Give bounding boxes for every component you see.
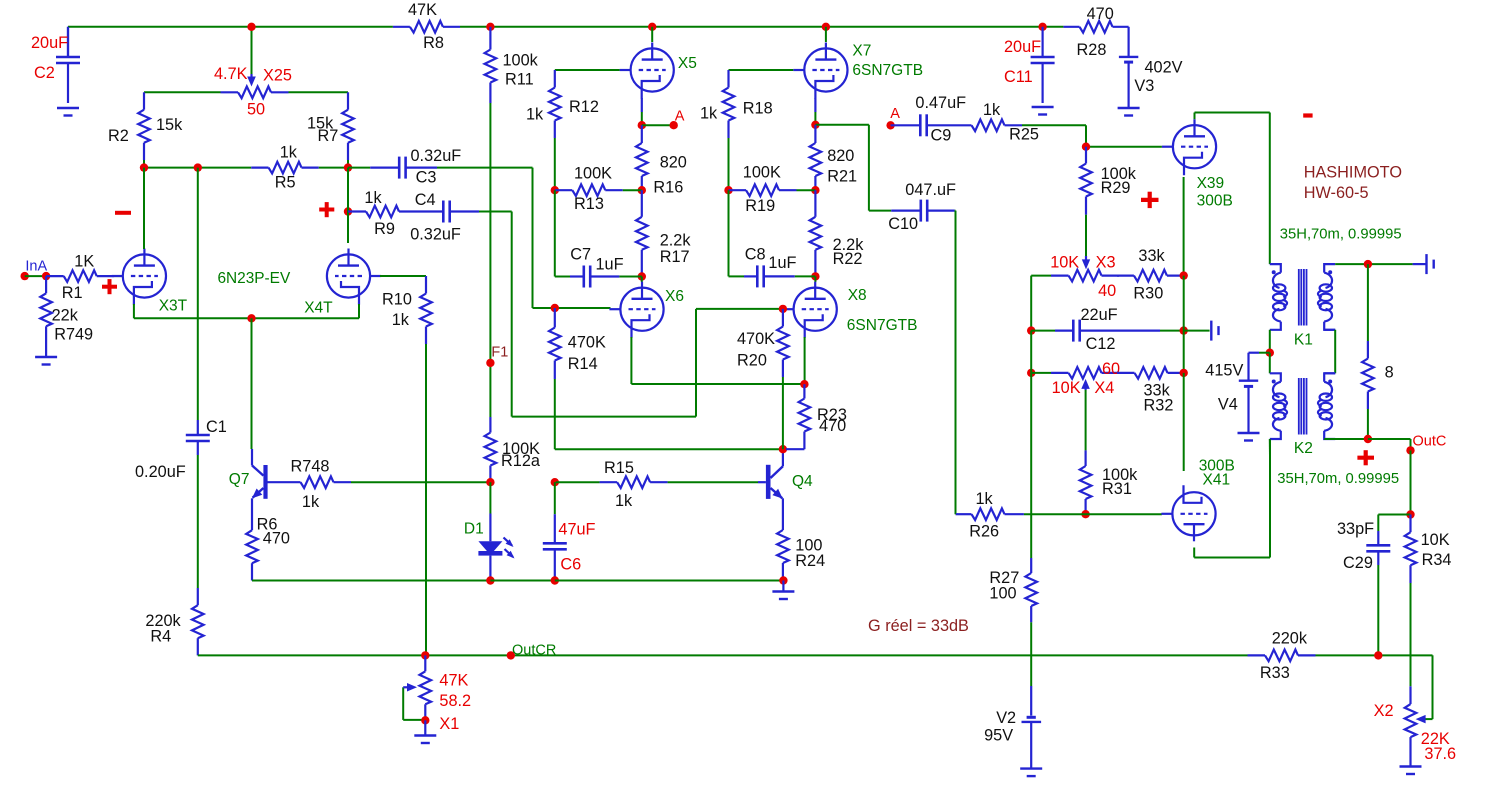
svg-text:R28: R28 — [1077, 41, 1107, 59]
svg-text:OutC: OutC — [1413, 433, 1447, 449]
svg-text:HW-60-5: HW-60-5 — [1304, 184, 1369, 202]
junction dot X5 anode — [648, 23, 656, 31]
junction dot R8-R11 — [486, 23, 494, 31]
svg-text:X3: X3 — [1096, 253, 1116, 271]
wire C29 branch — [1378, 515, 1410, 532]
wire R18 to R19 dot — [728, 138, 730, 190]
wire to OutC corner — [1368, 439, 1411, 450]
svg-text:100k: 100k — [503, 52, 539, 70]
wire top B+ rail right segment — [460, 26, 1063, 28]
resistor R12a — [485, 417, 541, 482]
transformer K1 core — [1294, 269, 1313, 348]
wire C8 branch — [729, 190, 745, 276]
capacitor C12 — [1031, 306, 1160, 353]
svg-text:R32: R32 — [1144, 397, 1174, 415]
wire R10 column down — [425, 344, 427, 655]
resistor R17 — [636, 190, 691, 276]
transformer K2 secondary — [1318, 373, 1335, 439]
svg-text:R12: R12 — [569, 98, 599, 116]
svg-text:R25: R25 — [1009, 125, 1039, 143]
svg-text:R5: R5 — [275, 174, 296, 192]
svg-text:100: 100 — [989, 584, 1016, 602]
capacitor C8 — [744, 245, 797, 287]
resistor R34 — [1405, 515, 1452, 584]
junction dot 8ohm bottom — [1364, 435, 1372, 443]
svg-text:V2: V2 — [996, 709, 1016, 727]
svg-text:100K: 100K — [743, 164, 781, 182]
svg-text:100K: 100K — [574, 165, 612, 183]
ground right of K1 secondary — [1413, 254, 1434, 274]
svg-text:R17: R17 — [660, 248, 690, 266]
battery V3 — [1119, 27, 1183, 108]
ground below X1 — [414, 736, 436, 744]
resistor R26 — [956, 490, 1024, 541]
resistor R31 — [1080, 450, 1138, 514]
wire X7 cathode to C10 col — [815, 125, 869, 211]
svg-text:220k: 220k — [1272, 630, 1308, 648]
wire InA — [25, 275, 46, 277]
resistor R19 — [729, 164, 816, 216]
junction dot InA-R1 — [42, 272, 50, 280]
svg-text:V3: V3 — [1134, 77, 1154, 95]
svg-text:58.2: 58.2 — [439, 692, 471, 710]
wire C8 to X8 anode dot — [795, 275, 816, 277]
triode X3T — [112, 249, 291, 315]
capacitor C6 — [543, 482, 596, 580]
wire X4dot down to R27 — [1030, 373, 1032, 558]
svg-text:X4T: X4T — [304, 299, 333, 316]
resistor R4 — [145, 588, 203, 655]
svg-text:R749: R749 — [54, 326, 93, 344]
wire X2 to ground — [1409, 755, 1411, 766]
wire V4dot to K2 — [1269, 353, 1271, 374]
capacitor C3 — [370, 147, 461, 186]
junction dot X1 top — [421, 651, 429, 659]
wire bottom rail D1-C6 — [490, 580, 554, 582]
svg-text:R748: R748 — [291, 458, 330, 476]
resistor R28 — [1063, 5, 1128, 59]
svg-text:K2: K2 — [1294, 440, 1313, 457]
wire C1 to R4 — [197, 455, 199, 588]
svg-text:8: 8 — [1385, 364, 1394, 382]
wire pot X25 right to R7 — [289, 91, 349, 93]
svg-text:1uF: 1uF — [768, 254, 796, 272]
svg-text:820: 820 — [827, 147, 854, 165]
svg-text:R15: R15 — [604, 459, 634, 477]
potentiometer X4 body — [1031, 360, 1120, 397]
svg-text:R31: R31 — [1102, 480, 1132, 498]
wire X7 anode — [825, 27, 827, 42]
junction dot V4 node — [1266, 349, 1274, 357]
svg-text:C2: C2 — [34, 64, 55, 82]
wire X8 anode — [814, 276, 816, 282]
junction dot R30 right — [1180, 271, 1188, 279]
wire C7 branch — [555, 190, 570, 276]
junction dot C12 left — [1027, 326, 1035, 334]
svg-text:1k: 1k — [615, 492, 633, 510]
transistor Q7 — [229, 449, 268, 513]
triode X6 — [609, 282, 684, 338]
potentiometer X3 body — [1050, 253, 1119, 300]
wire C12 right — [1160, 330, 1184, 332]
wire K2 prim bottom — [1269, 439, 1271, 455]
junction dot R29 top — [1082, 143, 1090, 151]
resistor R11 — [485, 27, 539, 103]
wire C10 down to R26 — [954, 211, 957, 515]
svg-text:G réel = 33dB: G réel = 33dB — [868, 617, 969, 635]
resistor 8ohm — [1362, 264, 1394, 439]
resistor R22 — [810, 190, 865, 276]
ground below C2 — [57, 108, 79, 116]
svg-text:X7: X7 — [852, 42, 871, 59]
potentiometer X3 wiper arrow — [1082, 256, 1090, 269]
svg-text:R4: R4 — [150, 628, 171, 646]
transformer K1 primary — [1270, 264, 1287, 330]
svg-text:1k: 1k — [364, 189, 382, 207]
svg-text:470K: 470K — [568, 334, 606, 352]
resistor R748 — [266, 458, 351, 511]
junction dot R13 left — [551, 186, 559, 194]
svg-text:X6: X6 — [665, 288, 684, 305]
junction dot X7 cathode — [811, 121, 819, 129]
junction dot C6 top — [551, 478, 559, 486]
ground right of C12 — [1184, 321, 1219, 341]
capacitor C1 — [135, 418, 227, 481]
svg-text:C1: C1 — [206, 418, 227, 436]
wire C7 to X6 anode dot — [619, 276, 641, 278]
wire R20 bottom — [782, 377, 784, 449]
triode X41 — [1161, 457, 1235, 541]
resistor R7 — [307, 92, 354, 167]
junction dot R12a bottom — [486, 478, 494, 486]
wire X39 cathode down — [1183, 177, 1185, 276]
svg-text:33k: 33k — [1138, 247, 1165, 265]
wire bottom rail Q7 — [252, 580, 490, 582]
svg-text:R33: R33 — [1260, 664, 1290, 682]
wire R11 column down — [489, 103, 491, 417]
svg-text:470: 470 — [819, 417, 846, 435]
ground below X2 — [1400, 767, 1422, 775]
junction dot C12 right — [1180, 326, 1188, 334]
wire R34 to X2 — [1410, 583, 1412, 686]
svg-text:R9: R9 — [374, 220, 395, 238]
resistor R27 — [989, 558, 1037, 622]
wire X39 cathode col mid — [1183, 276, 1185, 373]
svg-text:R18: R18 — [743, 99, 773, 117]
node OutCR dot — [507, 643, 557, 660]
svg-text:22k: 22k — [52, 307, 79, 325]
svg-text:R11: R11 — [505, 70, 534, 88]
resistor R1 — [46, 253, 114, 303]
LED D1 — [464, 482, 515, 577]
junction dot C6 bottom — [551, 576, 559, 584]
wire C12dot to X4dot — [1030, 331, 1032, 373]
wire R7dot to C3 — [348, 167, 370, 169]
svg-text:300B: 300B — [1197, 193, 1233, 210]
wire X6 cathode path — [631, 337, 804, 384]
wire C29 down — [1377, 565, 1379, 655]
wire grid rail y168 left — [144, 167, 251, 169]
svg-text:C12: C12 — [1086, 335, 1116, 353]
svg-text:0.32uF: 0.32uF — [410, 225, 461, 243]
svg-text:C11: C11 — [1004, 68, 1033, 86]
svg-text:K1: K1 — [1294, 331, 1313, 348]
svg-text:33pF: 33pF — [1337, 520, 1374, 538]
capacitor C7 — [570, 245, 624, 287]
svg-text:2.2k: 2.2k — [660, 232, 692, 250]
potentiometer X4 wiper arrow — [1081, 379, 1090, 390]
potentiometer X1 body — [420, 655, 472, 732]
junction dot R21 bottom — [811, 186, 819, 194]
svg-text:X1: X1 — [439, 715, 459, 733]
resistor R9 — [348, 189, 417, 238]
wire K1 sec top to ground — [1335, 263, 1412, 265]
wire R15 to Q4 base — [668, 481, 758, 483]
svg-text:C3: C3 — [416, 169, 437, 187]
capacitor C4 — [410, 191, 479, 243]
wire X25 wiper drop — [251, 27, 253, 74]
capacitor C2 — [31, 27, 80, 103]
capacitor C10 — [888, 181, 956, 233]
transformer K2 core — [1294, 378, 1313, 457]
minus sign near X3T — [115, 211, 131, 215]
svg-text:40: 40 — [1098, 282, 1116, 300]
capacitor C9 — [891, 94, 967, 144]
potentiometer X25 wiper arrow — [247, 74, 256, 87]
resistor R30 — [1117, 247, 1185, 303]
resistor R15 — [556, 459, 668, 510]
wire X5 cathode to A — [641, 98, 643, 125]
wire R14 to Q4 collector line — [555, 379, 783, 449]
svg-text:R34: R34 — [1422, 551, 1452, 569]
capacitor C11 — [1004, 27, 1055, 103]
junction dot Q4 collector — [779, 445, 787, 453]
wire K1K2 sec link — [1324, 330, 1335, 374]
wire R26 to X41 grid — [1024, 513, 1162, 515]
transformer K1 secondary — [1318, 264, 1335, 330]
junction dot R2 bottom — [140, 163, 148, 171]
svg-text:R14: R14 — [568, 355, 598, 373]
wire X8 cathode down — [804, 337, 806, 384]
svg-text:A: A — [890, 106, 900, 122]
label G reel — [868, 617, 969, 635]
resistor R20 — [737, 309, 789, 377]
junction dot X8 cathode — [800, 380, 808, 388]
wire cathode rail — [134, 317, 359, 319]
wire R31 to wiper — [1085, 390, 1087, 450]
svg-text:OutCR: OutCR — [512, 643, 556, 659]
resistor R6 — [246, 513, 290, 581]
svg-text:60: 60 — [1102, 360, 1120, 378]
svg-text:R1: R1 — [62, 284, 83, 302]
junction dot R9 input — [344, 207, 352, 215]
ground below V4 — [1238, 433, 1260, 441]
wire cathode dot down to Q7 — [251, 318, 253, 449]
resistor R18 — [700, 70, 773, 138]
junction dot X6 grid — [551, 304, 559, 312]
resistor R12 — [526, 70, 599, 138]
wire R25line to X39 grid — [1086, 146, 1162, 148]
resistor R10 — [382, 276, 432, 344]
svg-text:47K: 47K — [408, 1, 437, 19]
wire X41 plate path — [1194, 439, 1270, 558]
capacitor C29 — [1337, 520, 1390, 572]
node InA terminal dot — [21, 258, 48, 280]
svg-text:X3T: X3T — [159, 298, 188, 315]
svg-text:35H,70m, 0.99995: 35H,70m, 0.99995 — [1277, 471, 1399, 487]
resistor R8 — [393, 1, 460, 52]
node F1 — [486, 345, 508, 367]
svg-text:X8: X8 — [848, 287, 867, 304]
svg-text:R12a: R12a — [501, 452, 541, 470]
wire X39 plate to K1 — [1195, 113, 1270, 265]
svg-text:X4: X4 — [1094, 379, 1114, 397]
minus sign top right — [1303, 113, 1312, 117]
wire C10 left — [869, 210, 891, 212]
resistor R5 — [251, 143, 319, 191]
svg-text:HASHIMOTO: HASHIMOTO — [1304, 164, 1402, 182]
svg-text:C6: C6 — [560, 556, 581, 574]
resistor R33 — [1248, 630, 1316, 683]
svg-text:10K: 10K — [1052, 379, 1081, 397]
node A dot at C9 — [886, 106, 900, 129]
node OutC dot — [1406, 433, 1446, 454]
svg-text:C4: C4 — [415, 191, 436, 209]
svg-text:R2: R2 — [108, 127, 129, 145]
wire R7col down to X4T anode — [347, 168, 349, 243]
potentiometer X2 body — [1374, 686, 1457, 763]
svg-text:1k: 1k — [700, 104, 718, 122]
ground below V2 — [1020, 769, 1042, 777]
svg-text:R10: R10 — [382, 291, 412, 309]
svg-text:402V: 402V — [1145, 58, 1183, 76]
node A dot at X5 — [638, 109, 685, 130]
svg-text:1K: 1K — [74, 253, 94, 271]
plus sign near OutC — [1357, 450, 1374, 465]
junction dot node at 198 — [194, 163, 202, 171]
junction dot R34 top — [1406, 510, 1414, 518]
wire C4 to X8 grid path — [479, 212, 783, 417]
ground below C11 — [1032, 107, 1054, 115]
junction dot R22 bottom — [811, 272, 819, 280]
svg-text:047.uF: 047.uF — [905, 181, 956, 199]
junction dot R31 bottom — [1081, 510, 1089, 518]
wire R29 to X3 wiper — [1085, 215, 1087, 256]
junction dot X7 anode — [822, 23, 830, 31]
svg-text:95V: 95V — [984, 727, 1013, 745]
wire X5 grid to R12 — [555, 69, 620, 71]
ground below V3 — [1118, 108, 1140, 116]
svg-text:47uF: 47uF — [558, 521, 595, 539]
battery V4 — [1205, 353, 1259, 433]
junction dot X8 grid R20 — [779, 305, 787, 313]
junction dot X1 bottom — [421, 716, 429, 724]
wire X3T anode — [143, 168, 145, 249]
svg-text:1k: 1k — [392, 311, 410, 329]
wire X7 grid to R18 — [729, 69, 794, 71]
svg-text:F1: F1 — [491, 345, 508, 361]
wire X3 left elbow — [1031, 276, 1051, 331]
svg-text:R8: R8 — [423, 34, 444, 52]
resistor R23 — [799, 384, 847, 449]
wire R12 to R13 dot — [554, 138, 556, 190]
svg-text:V4: V4 — [1218, 395, 1238, 413]
wire grid rail y168 right — [319, 167, 348, 169]
wire top B+ rail left segment — [68, 26, 393, 28]
svg-text:470: 470 — [263, 529, 290, 547]
svg-text:22uF: 22uF — [1081, 306, 1118, 324]
junction dot C29 bottom — [1374, 651, 1382, 659]
junction dot D1 bottom — [486, 576, 494, 584]
wire R27 to V2 — [1030, 622, 1032, 686]
svg-text:0.20uF: 0.20uF — [135, 463, 186, 481]
wire X5 anode — [651, 27, 653, 42]
wire R748 to R12a dot — [351, 481, 490, 483]
wire anode col to C1 — [197, 168, 199, 420]
wire R23 bottom elbow — [786, 448, 804, 450]
svg-text:470K: 470K — [737, 330, 775, 348]
resistor R32 — [1117, 367, 1185, 415]
svg-text:10K: 10K — [1050, 253, 1079, 271]
junction dot R7 bottom — [344, 163, 352, 171]
wire X4T cathode drop — [358, 304, 360, 318]
plus sign at X4T grid — [319, 202, 334, 217]
svg-text:1uF: 1uF — [596, 255, 624, 273]
resistor R29 — [1080, 147, 1137, 215]
svg-text:X41: X41 — [1203, 472, 1231, 489]
triode X7 — [793, 42, 923, 98]
resistor R13 — [555, 165, 642, 213]
svg-text:InA: InA — [25, 258, 47, 274]
triode X5 — [620, 43, 697, 99]
wire X7 cathode down — [814, 98, 816, 125]
label 35H bottom — [1277, 471, 1399, 487]
junction dot X25 top — [247, 23, 255, 31]
svg-text:6N23P-EV: 6N23P-EV — [218, 270, 291, 287]
svg-text:X25: X25 — [263, 67, 292, 85]
resistor R14 — [549, 308, 606, 379]
junction dot R16 bottom — [638, 186, 646, 194]
svg-text:1k: 1k — [976, 490, 994, 508]
svg-text:0.32uF: 0.32uF — [411, 147, 462, 165]
triode X4T — [304, 249, 381, 317]
junction dot cathode rail — [247, 314, 255, 322]
junction dot R24 bottom — [779, 576, 787, 584]
svg-text:10K: 10K — [1421, 531, 1450, 549]
svg-text:R26: R26 — [969, 523, 999, 541]
svg-text:X2: X2 — [1374, 702, 1394, 720]
svg-text:R22: R22 — [833, 250, 863, 268]
svg-text:R30: R30 — [1133, 285, 1163, 303]
resistor R24 — [777, 513, 825, 581]
svg-text:D1: D1 — [464, 520, 484, 537]
junction dot 8ohm top — [1364, 260, 1372, 268]
wire X3T cathode drop — [133, 304, 135, 318]
wire R25 to R29 corner — [1022, 125, 1086, 146]
wire K1 prim bottom to dot — [1269, 330, 1271, 353]
svg-text:1k: 1k — [302, 493, 320, 511]
junction dot R17 bottom — [638, 272, 646, 280]
svg-text:C7: C7 — [570, 245, 591, 263]
wire X6 anode — [641, 277, 643, 283]
svg-text:15k: 15k — [156, 116, 183, 134]
svg-text:R29: R29 — [1101, 179, 1131, 197]
junction dot R19 left — [724, 186, 732, 194]
svg-text:47K: 47K — [439, 672, 468, 690]
svg-text:C29: C29 — [1343, 554, 1373, 572]
svg-text:50: 50 — [247, 101, 265, 119]
plus sign near X39 — [1141, 192, 1159, 208]
